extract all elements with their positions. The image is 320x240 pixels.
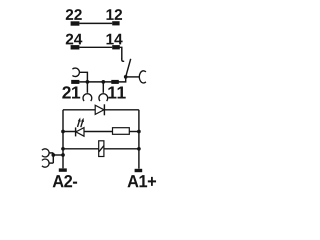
- fork socket 1: [83, 94, 92, 101]
- connector bridge wire: [52, 153, 54, 163]
- junction dot LED row right: [137, 130, 141, 134]
- wire 24-14: [79, 46, 112, 48]
- socket arc right: [139, 71, 146, 83]
- terminal 12: [112, 21, 119, 25]
- fork pin 2: [102, 82, 104, 93]
- resistor R1: [113, 128, 130, 135]
- diode D1 cathode bar: [103, 104, 105, 115]
- label 22: [66, 9, 82, 20]
- wire 22-12: [79, 22, 112, 24]
- terminal A2: [59, 168, 67, 171]
- connector arc bottom wire: [49, 162, 53, 164]
- connector arc top wire: [49, 152, 53, 154]
- wire pivot to socket: [126, 76, 140, 78]
- junction dot connector bridge: [51, 153, 55, 157]
- diode D1: [95, 105, 104, 114]
- label 14: [107, 34, 123, 45]
- wire 14 to NO contact: [120, 47, 122, 59]
- junction dot coil row left: [61, 147, 65, 151]
- LED row wire: [63, 131, 113, 133]
- label A1+: [127, 175, 156, 187]
- left rail: [62, 110, 64, 169]
- top wire right: [104, 109, 138, 111]
- wire arc to bus: [79, 72, 87, 82]
- contact bus wire: [79, 77, 125, 82]
- wire A2 branch: [53, 154, 63, 156]
- label A2-: [53, 175, 77, 187]
- LED triangle: [76, 128, 84, 137]
- junction dot fork1: [86, 80, 90, 84]
- junction dot coil row right: [137, 147, 141, 151]
- LED cathode bar: [75, 127, 77, 136]
- fork socket 2: [99, 94, 108, 101]
- label 12: [107, 9, 123, 20]
- label 24: [66, 34, 83, 45]
- fork pin 1: [86, 82, 88, 93]
- label 21: [62, 86, 80, 98]
- label 11: [108, 86, 125, 98]
- relay lever: [126, 59, 131, 77]
- terminal 21: [71, 80, 79, 84]
- junction dot LED row left: [61, 130, 65, 134]
- coil row wire left: [63, 148, 99, 150]
- socket arc near 21: [72, 68, 79, 76]
- connector arc top: [42, 149, 49, 157]
- top wire left: [63, 109, 95, 111]
- terminal 11: [111, 80, 119, 84]
- pivot junction dot: [124, 75, 128, 79]
- coil diagonal: [99, 146, 104, 152]
- junction dot A2 branch: [61, 153, 65, 157]
- LED arrow 2: [81, 122, 83, 128]
- relay coil K1: [99, 141, 104, 157]
- wire resistor to rail: [129, 131, 139, 133]
- connector arc bottom: [42, 159, 49, 167]
- terminal 22: [71, 21, 80, 25]
- LED arrow 1: [78, 121, 80, 127]
- coil row wire right: [104, 148, 139, 150]
- terminal A1: [135, 169, 143, 172]
- terminal 24: [71, 45, 80, 49]
- junction dot fork2: [101, 80, 105, 84]
- terminal 14: [112, 45, 120, 49]
- right rail: [138, 110, 140, 169]
- NO fixed contact hook: [122, 58, 124, 61]
